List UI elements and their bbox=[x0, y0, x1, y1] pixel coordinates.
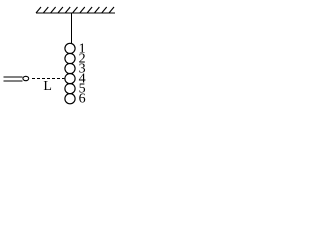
background bbox=[0, 0, 120, 111]
gun barrel bottom line bbox=[4, 80, 23, 82]
gun barrel top line bbox=[4, 76, 23, 78]
ball 6 bbox=[65, 94, 75, 104]
string (suspension wire) bbox=[71, 13, 73, 44]
ball 4 bbox=[65, 74, 75, 84]
ball 3 bbox=[65, 63, 75, 73]
ceiling line bbox=[36, 12, 115, 14]
ball 2 bbox=[65, 53, 75, 63]
svg-text:L: L bbox=[43, 79, 52, 94]
svg-text:6: 6 bbox=[79, 92, 86, 107]
ball 5 bbox=[65, 84, 75, 94]
ceiling hatch marks bbox=[36, 7, 114, 13]
ball 1 bbox=[65, 43, 75, 53]
trajectory dashed line bbox=[32, 78, 64, 80]
bullet bbox=[23, 76, 29, 80]
